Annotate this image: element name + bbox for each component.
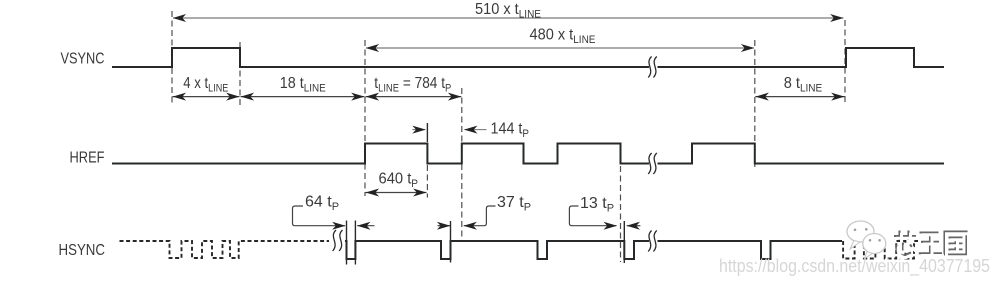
svg-text:VSYNC: VSYNC	[61, 51, 105, 68]
svg-text:HREF: HREF	[70, 150, 105, 167]
svg-text:HSYNC: HSYNC	[59, 242, 106, 259]
svg-text:https://blog.csdn.net/weixin_4: https://blog.csdn.net/weixin_40377195	[719, 255, 990, 277]
